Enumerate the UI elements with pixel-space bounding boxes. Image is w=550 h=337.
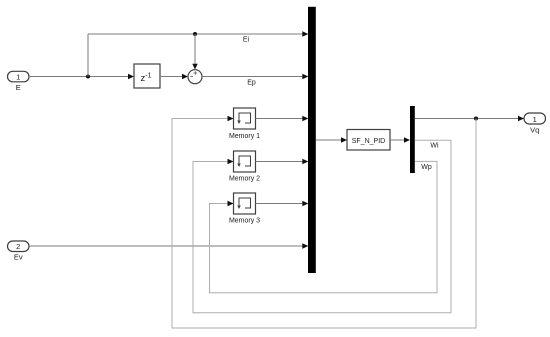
- feedback loop Vq to memory 1: [172, 116, 476, 328]
- wire mux to SF_N_PID: [316, 137, 347, 142]
- wire E to unit delay: [29, 74, 134, 79]
- sum block: [188, 70, 202, 84]
- mux bar: [308, 7, 316, 273]
- unit delay z^-1: [134, 64, 160, 88]
- svg-text:Memory 2: Memory 2: [229, 176, 260, 183]
- wire branch up from E: [87, 34, 89, 77]
- subsystem SF_N_PID: [347, 130, 390, 151]
- svg-text:Wp: Wp: [421, 164, 432, 171]
- svg-text:Vq: Vq: [530, 126, 539, 135]
- svg-text:Ei: Ei: [243, 37, 250, 44]
- wire demux output 2 Wi: [193, 140, 451, 312]
- svg-text:1: 1: [533, 115, 537, 124]
- junction dot on Vq wire: [474, 117, 478, 121]
- svg-text:2: 2: [16, 242, 20, 251]
- junction dot on E wire: [86, 75, 90, 79]
- wire down into sum top: [192, 34, 197, 70]
- inport 1 E: [8, 71, 30, 92]
- wire memory 2 to mux input 4: [256, 159, 309, 164]
- svg-text:SF_N_PID: SF_N_PID: [352, 138, 385, 145]
- svg-text:Ev: Ev: [14, 253, 23, 262]
- svg-text:Memory 3: Memory 3: [229, 217, 260, 224]
- inport 2 Ev: [8, 241, 30, 262]
- wire SF_N_PID to demux: [390, 137, 410, 142]
- svg-text:1: 1: [16, 73, 20, 82]
- wire memory 1 to mux input 3: [256, 116, 309, 121]
- memory 2: [229, 151, 260, 183]
- wire Ev to mux input 6: [29, 243, 308, 248]
- wire demux output 3 Wp: [210, 161, 438, 292]
- svg-text:Wi: Wi: [430, 143, 439, 150]
- memory 1: [229, 108, 260, 140]
- svg-text:Memory 1: Memory 1: [229, 133, 260, 140]
- svg-text:E: E: [16, 83, 21, 92]
- demux bar: [410, 106, 415, 173]
- wire demux output 1 to outport Vq: [415, 116, 524, 121]
- svg-text:Ep: Ep: [247, 80, 256, 87]
- outport 1 Vq: [524, 113, 546, 135]
- wire unit delay to sum: [160, 74, 188, 79]
- wire memory 3 to mux input 5: [256, 201, 309, 206]
- wire sum to mux input 2: [202, 74, 308, 79]
- memory 3: [229, 193, 260, 224]
- wire Ei to mux input 1: [88, 31, 308, 36]
- junction dot above sum: [193, 32, 197, 36]
